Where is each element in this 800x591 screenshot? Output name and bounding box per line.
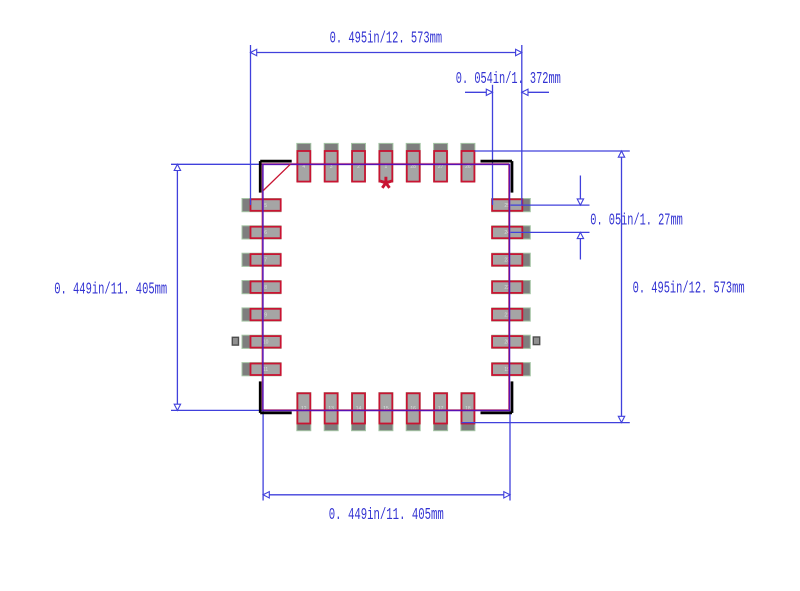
svg-text:7: 7	[264, 258, 267, 264]
svg-text:0. 449in/11. 405mm: 0. 449in/11. 405mm	[54, 280, 167, 299]
svg-text:0. 054in/1. 372mm: 0. 054in/1. 372mm	[456, 69, 561, 88]
svg-text:0. 495in/12. 573mm: 0. 495in/12. 573mm	[330, 28, 443, 47]
svg-text:0. 05in/1. 27mm: 0. 05in/1. 27mm	[590, 211, 683, 230]
svg-text:5: 5	[264, 203, 267, 209]
svg-text:8: 8	[264, 285, 267, 291]
svg-text:6: 6	[264, 230, 267, 236]
svg-text:10: 10	[263, 340, 269, 346]
svg-text:0. 495in/12. 573mm: 0. 495in/12. 573mm	[633, 279, 745, 298]
svg-text:0. 449in/11. 405mm: 0. 449in/11. 405mm	[329, 505, 444, 524]
svg-text:11: 11	[263, 367, 268, 373]
svg-text:9: 9	[264, 312, 267, 318]
